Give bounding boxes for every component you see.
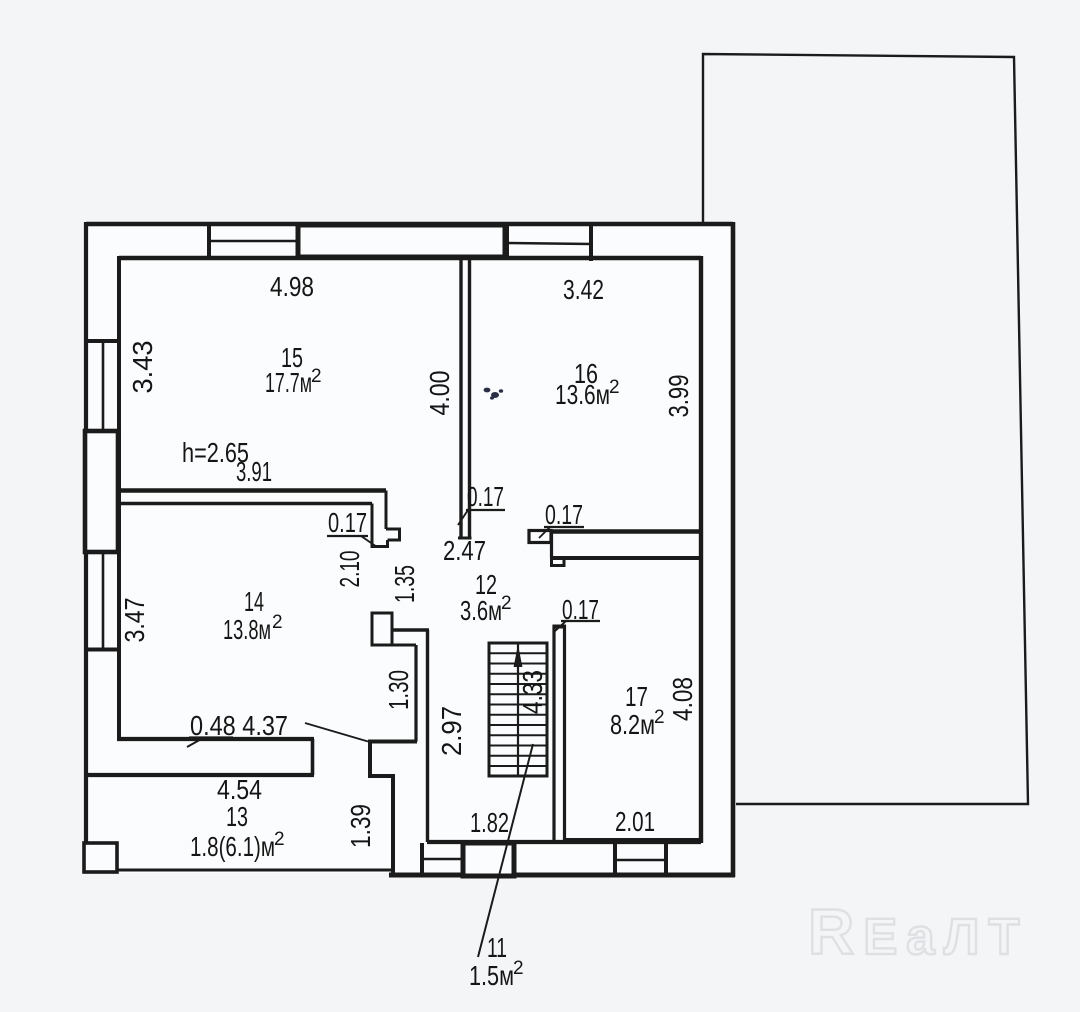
inner wall line bottom <box>427 840 701 844</box>
svg-text:4.98: 4.98 <box>270 271 314 302</box>
svg-text:2: 2 <box>654 707 665 728</box>
bottom wall window F left bar <box>613 842 617 876</box>
inner wall line top <box>119 256 701 260</box>
svg-text:3.99: 3.99 <box>663 375 694 418</box>
svg-text:1.8(6.1)м: 1.8(6.1)м <box>190 831 275 862</box>
svg-text:11: 11 <box>487 932 507 963</box>
room17 inner bottom line <box>564 838 701 842</box>
wall room16/17 foot <box>552 558 565 566</box>
bottom wall window D right bar <box>461 843 465 875</box>
partition room15/16 bottom cap <box>458 537 472 540</box>
svg-text:3.47: 3.47 <box>119 598 150 643</box>
wall room15/14 end jamb <box>372 491 400 547</box>
leader 4.37 to door opening <box>305 723 368 742</box>
porch corner pillar <box>84 843 117 872</box>
outer wall bottom thick <box>389 873 735 878</box>
outer wall right <box>731 222 736 877</box>
LEADERS <box>187 388 600 957</box>
svg-text:1.35: 1.35 <box>389 565 420 603</box>
svg-text:13: 13 <box>226 801 248 832</box>
top wall window B box <box>298 225 505 257</box>
left wall window3 midline <box>102 552 105 649</box>
bottom wall window D midline <box>422 858 463 861</box>
top wall window C midline <box>507 243 591 244</box>
svg-text:14: 14 <box>244 586 264 617</box>
top wall window C left bar <box>505 224 509 259</box>
svg-text:3.91: 3.91 <box>236 456 272 487</box>
wall room15/14 bottom line <box>117 502 372 506</box>
hall left wall outer line <box>426 630 429 842</box>
svg-text:17: 17 <box>625 681 648 712</box>
leader room11 from stairs <box>478 744 533 957</box>
svg-text:4.33: 4.33 <box>517 670 548 714</box>
svg-text:0.17: 0.17 <box>562 594 599 625</box>
top wall window C right bar <box>589 226 593 261</box>
hall left wall inner line <box>414 645 417 742</box>
svg-text:2.01: 2.01 <box>615 806 655 837</box>
wall room16/17 bottom line <box>552 556 702 560</box>
svg-text:13.8м: 13.8м <box>223 614 271 645</box>
wall room15/14 top line <box>117 488 386 492</box>
svg-text:2.97: 2.97 <box>436 706 467 756</box>
STAIRS <box>489 643 547 776</box>
svg-text:1.39: 1.39 <box>345 804 376 848</box>
wall stairs/17 left line <box>552 625 555 840</box>
svg-text:2: 2 <box>501 593 512 614</box>
plan interior fill <box>88 226 731 873</box>
hall top wall lower line <box>372 644 416 647</box>
underline 0.17 wall stairs <box>561 620 600 622</box>
wall room13/14 bottom line <box>85 773 314 777</box>
WINDOWS <box>84 222 666 876</box>
hall top wall upper line <box>392 628 429 631</box>
underline 0.48 <box>189 736 233 738</box>
svg-text:8.2м: 8.2м <box>610 709 655 740</box>
WATERMARK <box>808 896 1020 968</box>
wall room16/17 door stub <box>529 531 551 543</box>
inner wall line left <box>117 256 121 741</box>
inner wall line right <box>699 256 703 843</box>
tick 0.17 wall stairs <box>555 621 566 631</box>
wall room16/17 top line <box>552 529 702 533</box>
svg-text:2: 2 <box>609 377 620 398</box>
bottom wall window F midline <box>615 859 666 862</box>
partition room15/16 right line <box>468 258 471 538</box>
underline 0.17 wall16/17 <box>544 526 584 528</box>
wall stairs/17 top cap <box>553 625 567 629</box>
svg-text:1.30: 1.30 <box>383 670 414 710</box>
svg-text:4.00: 4.00 <box>424 371 455 416</box>
staircase steps <box>489 653 547 766</box>
svg-text:2: 2 <box>311 366 322 387</box>
svg-text:1.5м: 1.5м <box>469 960 514 991</box>
wall room13/14 end cap <box>311 739 315 775</box>
ink blot room16 <box>484 388 504 400</box>
outer wall left <box>84 222 88 873</box>
left wall window1 midline <box>102 341 105 431</box>
left wall window3 bottom cap <box>84 648 119 652</box>
top wall window A right bar <box>296 222 300 258</box>
wall stairs/17 right line <box>563 625 566 840</box>
top wall window A midline <box>209 240 298 243</box>
svg-text:2: 2 <box>513 958 524 979</box>
svg-text:17.7м: 17.7м <box>265 367 312 398</box>
svg-text:2.47: 2.47 <box>443 535 486 566</box>
svg-text:2: 2 <box>272 612 283 633</box>
underline 0.17 room15 door <box>327 535 368 537</box>
top wall window A left bar <box>207 222 211 258</box>
terrace outline <box>703 54 1028 804</box>
svg-text:0.17: 0.17 <box>467 481 504 512</box>
svg-text:2.10: 2.10 <box>334 551 365 588</box>
tick 0.17 wall16/17 <box>539 527 550 538</box>
svg-text:0.48 4.37: 0.48 4.37 <box>190 710 288 741</box>
tick 0.48 <box>187 738 204 748</box>
staircase up arrow <box>514 645 523 668</box>
partition room15/16 left line <box>459 258 462 538</box>
outer wall top <box>86 222 733 227</box>
staircase outline <box>489 643 547 776</box>
wall room13/14 top line <box>117 737 314 741</box>
svg-text:3.43: 3.43 <box>127 341 158 394</box>
svg-text:4.08: 4.08 <box>667 677 698 721</box>
underline 0.17 partition16 <box>466 509 505 511</box>
WALLS <box>84 54 1028 877</box>
bottom wall window E box <box>463 843 514 876</box>
left wall divider bar above window1 <box>84 339 119 343</box>
porch bottom thin wall <box>84 869 391 872</box>
bottom wall window D left bar <box>420 843 424 875</box>
svg-text:3.6м: 3.6м <box>460 595 502 626</box>
svg-text:13.6м: 13.6м <box>555 379 610 410</box>
tick 0.17 partition16 <box>458 510 468 525</box>
tick 0.17 room15 door <box>361 536 377 547</box>
left wall window2 box <box>85 431 118 552</box>
hall door jamb stub <box>372 613 392 645</box>
wall piece at hall bottom-left <box>368 742 417 876</box>
bottom wall window F right bar <box>664 842 668 876</box>
svg-text:0.17: 0.17 <box>328 507 367 538</box>
svg-text:3.42: 3.42 <box>563 274 604 305</box>
svg-text:1.82: 1.82 <box>470 807 509 838</box>
svg-text:0.17: 0.17 <box>545 499 583 530</box>
wall room16/17 left cap <box>550 530 553 558</box>
staircase center divider <box>517 643 519 776</box>
svg-text:2: 2 <box>274 829 285 850</box>
